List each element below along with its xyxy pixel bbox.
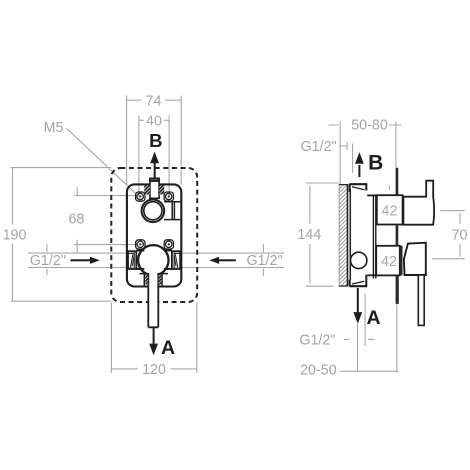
svg-text:42: 42 [381,254,397,270]
svg-text:G1/2": G1/2" [301,139,337,155]
svg-text:40: 40 [146,114,162,130]
svg-text:G1/2": G1/2" [299,333,335,349]
svg-text:68: 68 [68,212,84,228]
svg-text:20-50: 20-50 [300,363,337,379]
svg-text:B: B [149,130,162,151]
svg-text:120: 120 [142,362,166,378]
pipe between boxes [396,225,399,246]
handle stem [149,271,158,327]
left inlet wing [128,249,144,270]
inlet arrow left [71,257,100,264]
dimension 70 right [432,211,465,259]
side box right of cartridge [164,202,181,220]
wall right face line [347,184,349,286]
dimension 50-80 top [329,122,402,185]
screw top-right [164,192,173,201]
svg-text:G1/2": G1/2" [246,253,282,269]
dimension 74 top [127,96,182,186]
svg-text:144: 144 [297,227,321,243]
upper rear box with tab [403,181,434,225]
svg-text:70: 70 [452,228,468,244]
svg-text:B: B [368,152,383,175]
arrow A down (side) [353,288,362,324]
dimension 68 left [74,187,136,253]
valve body outline [127,184,181,286]
svg-text:42: 42 [382,204,398,220]
top clamp hatch left [144,185,150,194]
svg-text:50-80: 50-80 [351,118,388,134]
dimension 144 [306,183,339,286]
dimension 40 top [139,116,169,197]
cartridge plate double lines [373,195,375,279]
arrow A down (front) [149,327,158,355]
rough-in dashed box [111,168,197,302]
lower housing box 42 [376,246,400,276]
bottom clamp hatch left [145,275,148,285]
dimension 190 left [11,168,112,302]
small tick near top bracket [388,185,390,190]
dimension 120 bottom [111,303,196,374]
port centerlines left with G1/2 label [28,244,133,275]
port centerlines right with G1/2 label [175,244,284,276]
svg-text:M5: M5 [44,120,64,136]
screw bottom-right [164,240,173,249]
upper housing box 42 [377,195,403,224]
svg-text:190: 190 [3,228,27,244]
arrow B up (front) [150,152,159,178]
svg-text:A: A [161,337,175,359]
bottom clamp bracket [140,274,169,286]
top clamp hatch right [159,185,164,194]
bottom bracket [349,275,376,287]
dimension 20-50 bottom [340,305,398,373]
diverter circle (lower) [138,245,168,275]
screw bottom-left [136,240,145,249]
lever escutcheon (side) [404,243,426,275]
screw M5 top-left [136,192,145,201]
svg-text:74: 74 [146,94,162,110]
arrow B up (side) [355,152,364,177]
right inlet wing [164,249,180,270]
svg-text:A: A [366,307,380,329]
top bracket [349,184,377,195]
bottom clamp hatch right [159,275,162,285]
svg-text:G1/2": G1/2" [30,253,66,269]
inlet arrow right [209,257,236,264]
handle bar [418,275,424,325]
top outlet stub B [150,178,159,198]
wall section with hatching [339,184,347,286]
outlet pipe A (down) [396,275,399,304]
mounting plate line [349,190,351,281]
diverter knob circle (side) [351,252,367,268]
cartridge circle (upper) [142,200,165,223]
riser pipe B (up) [396,168,399,195]
